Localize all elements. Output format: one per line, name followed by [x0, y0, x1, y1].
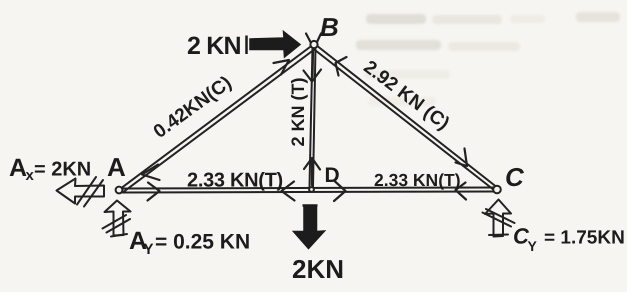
chord tension arrowhead near D left (points left) [282, 182, 295, 201]
arrowhead on AB near A (compression, toward A) [142, 165, 160, 181]
svg-text:Y: Y [144, 241, 154, 258]
svg-text:C: C [505, 162, 525, 192]
svg-text:2 KN: 2 KN [187, 32, 241, 60]
member AB (double line) [122, 46, 315, 192]
svg-text:= 2KN: = 2KN [34, 159, 91, 181]
wire overshoot stub right of apex B [317, 34, 321, 43]
svg-text:2 KN (T): 2 KN (T) [288, 78, 308, 147]
wire overshoot stub left of apex B [306, 34, 311, 43]
member BC (double line) [313, 45, 496, 190]
node C [493, 186, 501, 194]
arrowhead BD bottom, pointing up [304, 158, 320, 170]
applied load 2KN at D: solid down arrow [294, 206, 325, 249]
node B [310, 41, 317, 48]
reaction Cy: hollow up arrow [485, 200, 511, 237]
arrow shaft on BD near D (tension, up away from D) [311, 161, 313, 185]
node A [116, 187, 123, 194]
svg-text:A: A [9, 154, 27, 182]
svg-text:B: B [320, 12, 339, 42]
chord tension arrowhead near D right (points right) [334, 181, 346, 201]
svg-text:2.33 KN(T): 2.33 KN(T) [374, 170, 461, 190]
member AC bottom chord (double line) [122, 188, 495, 193]
chord tension arrowhead near C (points left) [456, 183, 467, 200]
svg-text:Y: Y [528, 238, 538, 254]
svg-text:2KN: 2KN [292, 254, 344, 284]
svg-text:2.33 KN(T): 2.33 KN(T) [187, 170, 283, 192]
svg-text:= 1.75KN: = 1.75KN [544, 228, 625, 249]
hatch on Cy arrow [483, 209, 515, 235]
arrow shaft on BD near B (tension, down away from B) [311, 51, 314, 77]
applied load 2KN at B: solid right arrow [247, 32, 301, 58]
hatch on Ax arrow [77, 177, 103, 207]
svg-text:D: D [325, 164, 340, 187]
arrowhead on BC near C (compression, toward C) [456, 149, 468, 167]
svg-text:A: A [107, 152, 126, 182]
hatch on Ay arrow [103, 215, 131, 237]
chord tension arrowhead near A (points right) [148, 183, 160, 201]
arrowhead BD top, pointing down [304, 70, 322, 82]
reaction Ay: hollow up arrow [105, 201, 131, 236]
svg-text:= 0.25 KN: = 0.25 KN [155, 231, 250, 254]
node D [309, 187, 314, 192]
arrowhead on BC near B (compression, toward B) [336, 57, 347, 76]
arrowhead on AB near B (compression, toward B) [274, 60, 290, 75]
member BD (double line) [310, 47, 316, 187]
faint bleed-through text upper right [356, 12, 620, 106]
reaction Ax: hollow left arrow [57, 179, 105, 204]
